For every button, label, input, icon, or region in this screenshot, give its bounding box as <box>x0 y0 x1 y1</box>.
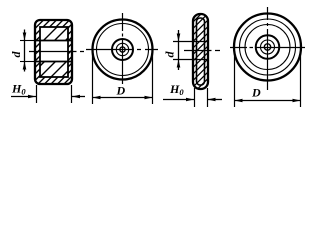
wheel 3 H0 dimension line with outside arrows <box>163 99 194 101</box>
wheel 1 inner sparse hatch <box>0 0 139 110</box>
svg-text:d: d <box>163 51 177 58</box>
svg-text:d: d <box>9 51 23 58</box>
wheel 1 inner recess area (white) <box>40 27 68 77</box>
D dimension line <box>235 100 301 102</box>
second circle <box>240 19 296 75</box>
center hole <box>264 44 270 50</box>
wheel 1 H0 dimension line with outside arrows <box>11 96 36 98</box>
wheel 3 outline <box>193 14 208 89</box>
third circle <box>245 25 290 70</box>
D extension lines <box>234 51 236 107</box>
wheel 1 center line <box>29 51 85 53</box>
svg-text:H0: H0 <box>169 82 184 97</box>
vertical center line <box>267 7 269 90</box>
wheel 1 H0 extension lines <box>36 85 38 103</box>
wheel 3 d dimension line <box>178 30 180 70</box>
wheel 1 section: outline <box>35 20 72 84</box>
D extension lines <box>92 53 94 104</box>
wheel 3 inner outline <box>197 18 205 85</box>
center hole <box>120 47 125 52</box>
svg-text:D: D <box>251 86 261 100</box>
hub outer ring <box>112 39 133 60</box>
hub inner ring <box>116 43 128 55</box>
D dimension line <box>93 97 153 99</box>
svg-text:D: D <box>116 84 126 98</box>
outer circle <box>234 14 301 81</box>
hub inner ring <box>261 40 275 54</box>
svg-text:H0: H0 <box>11 82 26 97</box>
horizontal center line <box>86 49 158 51</box>
wheel 3 thin section: hatch <box>188 0 216 99</box>
second circle <box>97 24 149 76</box>
wheel 1 d dimension line <box>24 30 26 72</box>
wheel 3 bore lines <box>173 41 208 43</box>
wheel 1 inner rect outline <box>40 27 68 77</box>
hub outer ring <box>256 35 280 59</box>
outer circle <box>93 20 153 80</box>
wheel 1 section: outer band hatch <box>0 0 155 110</box>
d arrows (outside, pointing inward) <box>23 33 27 41</box>
wheel 1 bore lines <box>20 40 35 42</box>
wheel 3 center line <box>184 50 222 52</box>
wheel 3 H0 extension lines <box>194 88 196 107</box>
vertical center line <box>122 13 124 84</box>
horizontal center line <box>230 47 305 49</box>
